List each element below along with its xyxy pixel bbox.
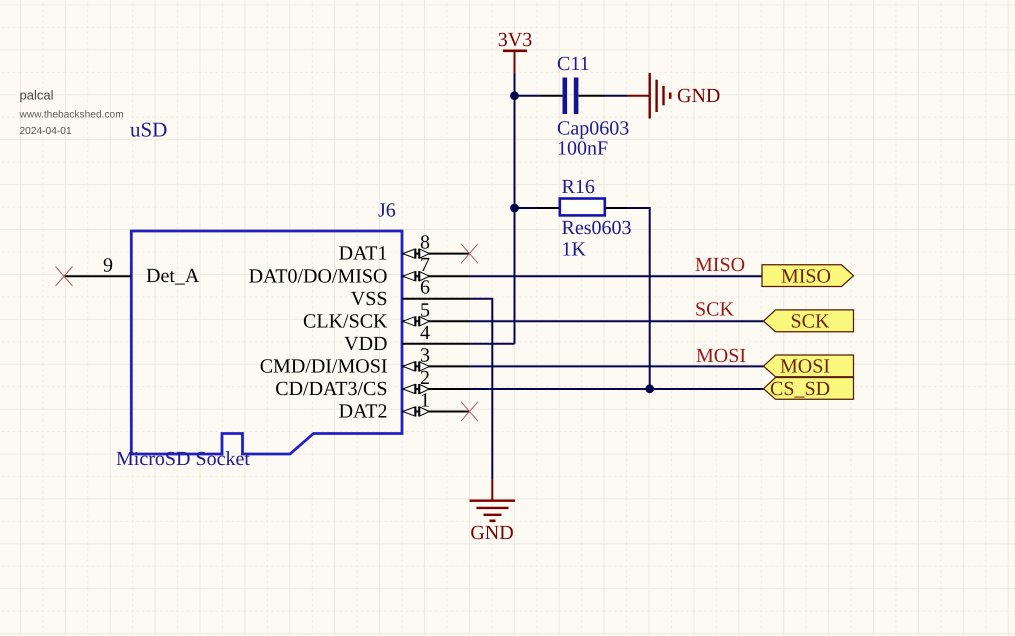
svg-text:SCK: SCK (695, 298, 734, 320)
svg-text:C11: C11 (557, 53, 590, 75)
wire SCK (470, 320, 764, 322)
resistor R16 (537, 199, 627, 216)
pin 7 I/O arrows (403, 271, 430, 281)
no-connect X pin 9 (56, 267, 73, 287)
wire MOSI (470, 365, 764, 367)
svg-text:Det_A: Det_A (146, 265, 200, 287)
junction at C11 / 3V3 (510, 91, 519, 100)
svg-text:2024-04-01: 2024-04-01 (20, 126, 72, 137)
svg-text:CLK/SCK: CLK/SCK (303, 310, 388, 332)
svg-text:GND: GND (470, 522, 513, 544)
svg-text:www.thebackshed.com: www.thebackshed.com (19, 110, 124, 121)
svg-text:DAT2: DAT2 (339, 401, 388, 423)
pin 2 CD/DAT3/CS (275, 367, 470, 400)
power port GND bottom (470, 479, 516, 544)
wire CS_SD (470, 388, 764, 390)
svg-text:1K: 1K (562, 239, 587, 261)
pin 1 DAT2 (339, 390, 470, 423)
wire R16 to CS_SD net (627, 208, 650, 389)
svg-text:MOSI: MOSI (780, 356, 830, 378)
junction CS_SD (645, 384, 654, 393)
svg-text:uSD: uSD (130, 118, 167, 142)
svg-text:Cap0603: Cap0603 (557, 117, 629, 139)
no-connect X pin 1 (461, 402, 478, 422)
svg-text:SCK: SCK (791, 310, 830, 332)
wire MISO (470, 275, 762, 277)
svg-text:VDD: VDD (344, 333, 387, 355)
svg-text:CD/DAT3/CS: CD/DAT3/CS (275, 378, 387, 400)
svg-text:6: 6 (420, 277, 430, 299)
capacitor C11 (541, 78, 605, 115)
pin 4 VDD (344, 322, 470, 355)
power port 3V3 (498, 29, 532, 73)
svg-text:DAT1: DAT1 (339, 243, 388, 265)
port MOSI (764, 355, 854, 378)
pin 5 CLK/SCK (303, 299, 470, 332)
power port GND right (627, 73, 720, 119)
no-connect X pin 8 (461, 244, 478, 263)
wire C11 to GND (605, 95, 627, 97)
svg-text:CS_SD: CS_SD (770, 378, 830, 400)
svg-text:J6: J6 (378, 200, 396, 222)
svg-text:4: 4 (420, 322, 430, 344)
pin 9 Det_A (64, 255, 200, 288)
svg-text:VSS: VSS (351, 288, 388, 310)
pin 7 DAT0/DO/MISO (249, 254, 470, 287)
pin 2 I/O arrows (403, 384, 430, 394)
svg-text:CMD/DI/MOSI: CMD/DI/MOSI (260, 356, 388, 378)
svg-text:Res0603: Res0603 (562, 217, 632, 239)
wire VDD to 3V3 rail (470, 343, 515, 345)
svg-text:palcal: palcal (20, 87, 54, 102)
junction at R16 / 3V3 (510, 204, 519, 213)
pin 8 DAT1 (339, 232, 470, 265)
port CS_SD (764, 378, 854, 400)
svg-text:MicroSD Socket: MicroSD Socket (116, 448, 250, 470)
pin 6 VSS (351, 277, 470, 310)
svg-text:100nF: 100nF (557, 138, 608, 160)
wire junction to C11 (515, 95, 542, 97)
wire VSS to GND (470, 299, 492, 479)
connector J6 outline (131, 231, 402, 454)
port MISO (762, 265, 854, 288)
svg-text:MOSI: MOSI (696, 345, 746, 367)
port SCK (764, 310, 854, 332)
svg-text:R16: R16 (562, 176, 595, 198)
pin 3 CMD/DI/MOSI (260, 344, 470, 377)
pin 5 I/O arrows (403, 316, 430, 326)
pin 3 I/O arrows (403, 361, 430, 371)
svg-text:GND: GND (677, 85, 720, 107)
wire 3V3 rail vertical (514, 73, 516, 344)
pin 8 I/O arrows (403, 249, 430, 259)
pin 1 I/O arrows (403, 407, 430, 417)
svg-text:MISO: MISO (781, 266, 831, 288)
wire junction to R16 (515, 207, 538, 209)
svg-text:9: 9 (103, 255, 113, 277)
svg-text:DAT0/DO/MISO: DAT0/DO/MISO (249, 265, 388, 287)
svg-text:3V3: 3V3 (498, 29, 532, 51)
svg-text:MISO: MISO (695, 254, 745, 276)
